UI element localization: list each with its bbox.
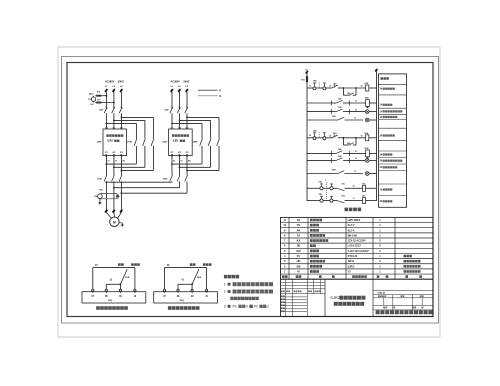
- svg-text:03: 03: [329, 135, 331, 137]
- wire rung 1 to coil: [344, 86, 366, 88]
- svg-text:1QF: 1QF: [99, 109, 104, 111]
- pushbutton 1SB3 interlock: [323, 184, 333, 190]
- svg-text:6T3: 6T3: [120, 152, 123, 154]
- svg-text:13: 13: [354, 118, 356, 120]
- label caption control terminals 2: [168, 306, 200, 310]
- indicator lamp 1HD fault: [365, 110, 376, 114]
- svg-text:5L3: 5L3: [186, 127, 189, 129]
- svg-text:U1: U1: [107, 161, 109, 163]
- svg-text:1SM: 1SM: [338, 107, 342, 109]
- control bus N (right vertical): [375, 69, 377, 201]
- svg-text:TA: TA: [297, 233, 300, 237]
- svg-text:PA: PA: [297, 228, 301, 232]
- svg-text:6T3: 6T3: [186, 152, 189, 154]
- soft starter output terminals circuit 1: [105, 154, 122, 156]
- wire rung 2# manual start/stop: [307, 135, 313, 138]
- wire rung to fault lamp 2HD: [349, 158, 365, 160]
- contactor aux contact 2KM rung: [307, 170, 363, 174]
- svg-text:3L2: 3L2: [178, 127, 181, 129]
- svg-text:1L1: 1L1: [105, 127, 108, 129]
- svg-text:KM: KM: [296, 249, 300, 253]
- BOM table header row: [282, 275, 422, 278]
- title block drawing title: [330, 295, 365, 306]
- svg-text:SM: SM: [297, 264, 301, 268]
- pushbutton 2SB stop: [313, 130, 317, 139]
- svg-text:2SM: 2SM: [162, 142, 167, 144]
- soft starter output terminal labels circuit 2: [171, 151, 189, 154]
- BOM table rows content: [283, 218, 420, 274]
- relay contact 2KC rung: [333, 196, 362, 204]
- svg-text:1FU: 1FU: [301, 80, 305, 82]
- svg-text:09: 09: [355, 109, 357, 111]
- svg-text:V2: V2: [181, 161, 183, 163]
- svg-text:W1: W1: [122, 161, 125, 163]
- wire output verticals circuit 2: [171, 155, 190, 175]
- svg-text:PV: PV: [297, 223, 301, 227]
- circuit breaker 1QF: [99, 107, 123, 113]
- svg-text:SJR2-55: SJR2-55: [377, 293, 386, 295]
- wire terminal middle 2: [178, 278, 193, 289]
- svg-text:P2: P2: [233, 305, 237, 309]
- svg-text:1KA: 1KA: [125, 276, 130, 279]
- voltmeter PV: [88, 92, 96, 106]
- ammeter PA: [94, 194, 102, 199]
- svg-text:JZX-22 AC220V: JZX-22 AC220V: [348, 240, 367, 243]
- fuse FU2 voltmeter bottom lead: [95, 99, 114, 103]
- ground motor frame: [119, 223, 124, 227]
- svg-text:V1: V1: [115, 161, 117, 163]
- junction dots branch circuit 2: [171, 117, 188, 125]
- terminal strip box soft starter 2: [154, 289, 218, 303]
- wire phase A vertical to motor: [105, 181, 107, 210]
- pushbutton 2SB start: [316, 133, 332, 140]
- svg-text:N: N: [219, 95, 221, 98]
- relay contact 1KC rung: [333, 183, 362, 191]
- svg-text:HD: HD: [297, 259, 301, 263]
- svg-text:SB: SB: [297, 244, 301, 248]
- technical notes: [224, 275, 273, 309]
- pushbutton 2SB2 interlock: [319, 194, 324, 202]
- title block outline: [281, 279, 434, 316]
- svg-text:SJR2-: SJR2-: [348, 265, 355, 268]
- svg-text:AC380V: AC380V: [170, 80, 180, 83]
- svg-text:2SM: 2SM: [338, 156, 342, 158]
- contactor aux contact 1KM rung: [307, 116, 363, 120]
- soft starter input terminal labels circuit 1: [105, 127, 123, 129]
- svg-text:2T1: 2T1: [105, 152, 108, 154]
- fuse FU1 voltmeter top lead: [95, 92, 107, 97]
- relay coil 1KA: [364, 82, 376, 91]
- wire tie line phase C circuits 1-2: [121, 181, 188, 194]
- wire phase verticals below breaker circuit 1: [106, 113, 121, 129]
- svg-text:2KM: 2KM: [365, 148, 369, 150]
- soft starter output terminal labels circuit 1: [105, 151, 123, 154]
- svg-text:PA: PA: [94, 195, 97, 198]
- pushbutton 1SB stop: [313, 81, 317, 90]
- relay contact 2KA changeover: [192, 269, 201, 284]
- svg-text:2KQ: 2KQ: [179, 300, 184, 302]
- svg-text:SA: SA: [297, 218, 301, 222]
- self-hold contact 1KA loop: [343, 87, 357, 95]
- svg-text:2: 2: [224, 290, 226, 294]
- svg-text:3: 3: [224, 304, 226, 308]
- terminal diagram starter 1: [82, 263, 146, 310]
- wire rung 2 to coil: [344, 136, 366, 138]
- indicator lamp 2HD fault: [365, 159, 376, 163]
- svg-text:4T2: 4T2: [112, 151, 115, 154]
- svg-text:AD16: AD16: [348, 260, 355, 263]
- power circuit 2: [162, 80, 219, 181]
- control rung group 1# starter: [307, 81, 377, 122]
- relay contact 1KA changeover: [120, 269, 129, 284]
- control rung group interlock: [307, 182, 377, 204]
- contactor coil 2KM: [365, 148, 377, 159]
- svg-text:KA: KA: [297, 239, 301, 243]
- title block revision rows: [281, 279, 326, 294]
- terminal marks supply circuit 2: [171, 89, 188, 92]
- contactor 2KM output contacts: [163, 175, 188, 182]
- svg-text:02: 02: [309, 135, 311, 137]
- svg-text:2KA: 2KA: [197, 276, 202, 279]
- svg-text:AC380V: AC380V: [105, 80, 115, 83]
- terminal marks motor leads: [105, 210, 122, 213]
- wire phase verticals top circuit 1: [106, 92, 121, 108]
- description column row dividers: [379, 85, 407, 196]
- wire bypass branches circuit 2: [172, 117, 219, 138]
- contactor coil 1KM: [365, 98, 377, 109]
- description column row texts: [380, 77, 403, 203]
- svg-text:2T1: 2T1: [171, 152, 174, 154]
- svg-text:07: 07: [355, 151, 357, 153]
- wire terminal top loop 1: [93, 263, 140, 289]
- wire rung to contactor coil 1KM: [349, 101, 365, 103]
- svg-text:0: 0: [246, 305, 248, 309]
- svg-text:1SM: 1SM: [338, 99, 342, 101]
- mechanical link dashed rung 1: [318, 82, 320, 88]
- svg-text:07: 07: [355, 101, 357, 103]
- svg-text:4T2: 4T2: [178, 151, 181, 154]
- svg-text:6L2-A: 6L2-A: [348, 229, 355, 232]
- svg-text:M: M: [297, 269, 299, 273]
- function description column box: [379, 74, 407, 207]
- svg-text:BH-0.66: BH-0.66: [348, 234, 358, 237]
- svg-text:1KQ: 1KQ: [108, 300, 113, 302]
- mechanical link dashed interlock buttons: [325, 180, 326, 201]
- circuit breaker 2QF: [164, 107, 188, 113]
- pushbutton 1SB start: [316, 83, 332, 90]
- relay coil 2KC: [362, 196, 377, 204]
- svg-text:CJ10-100 AC220V: CJ10-100 AC220V: [348, 250, 369, 253]
- svg-text:2SM: 2SM: [338, 149, 342, 151]
- wire rung 1# manual start/stop: [307, 85, 313, 88]
- ground CT secondary: [98, 199, 102, 205]
- svg-text:LA19-11/13: LA19-11/13: [348, 245, 362, 248]
- wire bypass branches circuit 1: [106, 117, 153, 138]
- wire bypass verticals lower circuit 2: [172, 146, 219, 171]
- svg-text:2KM: 2KM: [163, 178, 168, 180]
- svg-text:5L3: 5L3: [120, 127, 123, 129]
- terminal diagram starter 2: [154, 263, 218, 310]
- svg-text:05: 05: [361, 86, 363, 88]
- mechanical link dashed rung 2: [318, 132, 320, 138]
- svg-text:2KM: 2KM: [193, 142, 198, 144]
- selector switch SA contact rung 2: [332, 132, 344, 138]
- label caption control terminals 1: [96, 306, 128, 310]
- wire terminal middle 1: [106, 279, 121, 289]
- svg-text:50HZ: 50HZ: [118, 80, 125, 83]
- starter output contact 1SM rung: [307, 99, 349, 106]
- svg-text:LW5-16D/2: LW5-16D/2: [348, 219, 361, 222]
- svg-text:R: R: [219, 89, 221, 92]
- wire output verticals circuit 1: [106, 155, 125, 175]
- svg-text:01: 01: [309, 85, 311, 87]
- svg-text:3L2: 3L2: [112, 127, 115, 129]
- terminal strip box soft starter 1: [82, 289, 146, 303]
- wire legend power line: [198, 89, 221, 92]
- indicator lamp 2HD running: [365, 172, 376, 176]
- title block signature rows: [281, 294, 308, 317]
- svg-text:SJR2: SJR2: [107, 141, 113, 143]
- contactor 1KM bypass contacts: [127, 138, 154, 146]
- contactor 2KM bypass contacts: [193, 138, 220, 146]
- svg-text:W2: W2: [188, 161, 191, 163]
- svg-text:SJR2: SJR2: [173, 141, 179, 143]
- svg-text:13: 13: [354, 171, 356, 173]
- wire phase C vertical to motor: [120, 181, 122, 210]
- self-hold contact 2KA loop: [343, 137, 357, 145]
- wire terminal top loop 2: [165, 263, 212, 289]
- current transformer 1TA: [98, 189, 120, 199]
- svg-text:1SM: 1SM: [97, 142, 102, 144]
- svg-text:1KM: 1KM: [127, 142, 132, 144]
- svg-text:450V: 450V: [89, 92, 94, 95]
- contactor 1KM output contacts: [97, 175, 122, 182]
- svg-text:1TA: 1TA: [99, 189, 103, 192]
- power circuit 1: [97, 80, 154, 181]
- BOM table grid: [281, 217, 434, 279]
- svg-text:P0: P0: [254, 305, 258, 309]
- starter output contact 1SM rung: [307, 107, 349, 114]
- wire interlock rung 2: [307, 200, 320, 202]
- wire rung to contactor coil 2KM: [349, 151, 365, 153]
- relay coil 1KC: [362, 183, 377, 191]
- wire phase verticals below breaker circuit 2: [172, 113, 187, 129]
- svg-text:2KM: 2KM: [332, 170, 336, 172]
- svg-text:6L2: 6L2: [90, 104, 93, 106]
- soft starter input terminal labels circuit 2: [171, 127, 189, 129]
- wire legend control line: [198, 95, 221, 98]
- svg-text:09: 09: [353, 186, 355, 188]
- svg-text:11: 11: [353, 198, 355, 200]
- soft starter U2 box: [162, 129, 192, 156]
- svg-text:SJR2: SJR2: [330, 295, 341, 300]
- svg-text:FU: FU: [297, 254, 301, 258]
- wire bypass verticals lower circuit 1: [106, 146, 153, 171]
- wire phase B vertical to motor: [113, 181, 115, 210]
- fuse 1FU control: [301, 76, 308, 82]
- svg-text:L11: L11: [305, 69, 308, 71]
- wire interlock rung 1: [307, 187, 320, 189]
- svg-text:50HZ: 50HZ: [183, 80, 190, 83]
- node L1 L2 L3 supply labels circuit 1 (AC380V 50HZ): [105, 80, 124, 88]
- svg-text:03: 03: [329, 86, 331, 88]
- svg-text:2QF: 2QF: [164, 109, 169, 111]
- relay coil 2KA: [364, 132, 376, 141]
- wire motor leads: [106, 212, 121, 218]
- node L1 L2 L3 supply labels circuit 2 (AC380V 50HZ): [170, 80, 189, 88]
- soft starter output terminals circuit 2: [171, 154, 188, 156]
- svg-text:1KM: 1KM: [97, 178, 102, 180]
- title block right grid: [373, 291, 433, 310]
- wire tie line phase B circuits 1-2: [113, 181, 180, 188]
- wire rung to fault lamp 1HD: [349, 109, 365, 111]
- svg-text:U2: U2: [173, 161, 175, 163]
- svg-text:a: a: [325, 180, 326, 182]
- title block company name: [376, 310, 433, 314]
- terminal marks supply circuit 1: [105, 89, 122, 92]
- selector switch SA contact rung 1: [332, 82, 344, 88]
- control bus L (left vertical): [305, 69, 308, 201]
- svg-text:2: 2: [267, 305, 269, 309]
- pushbutton 2SB3 interlock: [323, 196, 333, 202]
- starter output contact 2SM rung: [307, 156, 349, 163]
- junction dots branch circuit 1: [106, 117, 123, 125]
- svg-text:1KM: 1KM: [365, 98, 369, 100]
- svg-text:1L1: 1L1: [171, 127, 174, 129]
- svg-text:RT18-32: RT18-32: [348, 255, 358, 258]
- svg-text:1KM: 1KM: [332, 116, 336, 118]
- label caption secondary schematic: [345, 208, 362, 212]
- svg-text:09: 09: [355, 158, 357, 160]
- pushbutton 1SB2 interlock: [319, 182, 324, 190]
- control rung group 2# starter: [307, 130, 377, 175]
- starter output contact 2SM rung: [307, 149, 349, 156]
- motor M: [110, 217, 119, 226]
- svg-text:1: 1: [224, 282, 226, 286]
- wire tie line phase A circuits 1-2: [106, 181, 173, 183]
- svg-text:6L2-V: 6L2-V: [348, 224, 355, 227]
- indicator lamp 1HD running: [365, 118, 376, 122]
- wire phase verticals top circuit 2: [172, 92, 187, 108]
- svg-text:M: M: [113, 221, 116, 225]
- soft starter U1 box: [97, 129, 127, 156]
- svg-text:05: 05: [361, 136, 363, 138]
